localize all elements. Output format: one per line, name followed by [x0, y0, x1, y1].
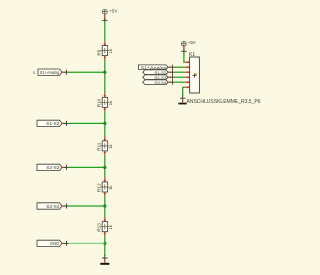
svg-text:R9: R9	[96, 49, 101, 55]
flag S3-S4 right	[143, 80, 175, 85]
wire right flag3 to pin 4	[174, 76, 185, 78]
pin wire left ground	[104, 260, 106, 263]
pin 4	[185, 76, 190, 78]
svg-text:R12: R12	[96, 183, 101, 192]
flag S1+Analog right	[139, 65, 176, 70]
flag S2-S3 right	[143, 75, 175, 80]
svg-text:S1-S2: S1-S2	[46, 121, 60, 126]
pin 6	[185, 86, 190, 88]
resistor R9	[96, 41, 113, 60]
wire K1 pin 6 to ground	[183, 87, 185, 96]
svg-text:ANSCHLUSSKLEMME_R3,5_P6: ANSCHLUSSKLEMME_R3,5_P6	[187, 99, 261, 105]
ground symbol right	[178, 103, 186, 105]
wire +5V to K1 pin 1	[184, 52, 185, 62]
wire R9 to R10	[104, 60, 106, 93]
svg-text:+5V: +5V	[109, 9, 117, 14]
flag S1-S2 right	[143, 70, 175, 75]
wire right flag4 to pin 5	[174, 81, 185, 83]
wire R12 to R13	[104, 196, 106, 217]
wire right flag1 to pin 2	[174, 66, 185, 68]
pin cross left supply	[102, 18, 108, 24]
svg-text:+5V: +5V	[188, 40, 196, 45]
flag S1-S2 left	[37, 120, 69, 126]
wire flag3 to chain	[69, 166, 105, 168]
svg-text:S3-S4: S3-S4	[46, 204, 60, 209]
wire right flag2 to pin 3	[174, 71, 185, 73]
junction node S1+Analog	[103, 71, 106, 74]
wire supply to R9	[104, 21, 106, 41]
resistor R13	[96, 217, 113, 236]
wire flag4 to chain	[69, 205, 105, 207]
resistor R11	[96, 137, 113, 156]
svg-text:R13: R13	[96, 223, 101, 232]
wire R13 to ground	[104, 236, 106, 256]
pin cross right ground	[180, 95, 186, 101]
flag S3-S4 left	[37, 203, 69, 209]
resistor R10	[96, 93, 113, 112]
flag S1+Analog left	[33, 69, 70, 75]
svg-text:R11: R11	[96, 142, 101, 151]
svg-text:S1+Analog: S1+Analog	[40, 70, 60, 75]
svg-text:R10: R10	[96, 98, 101, 107]
junction node S3-S4	[103, 204, 106, 207]
ground symbol left	[100, 263, 109, 265]
wire flag5 to chain	[69, 242, 105, 244]
pin 5	[185, 81, 190, 83]
pin cross right supply	[181, 49, 187, 55]
svg-text:GND: GND	[50, 241, 59, 246]
pin 3	[185, 71, 190, 73]
pin wire right ground	[182, 100, 184, 103]
flag S2-S3 left	[37, 164, 69, 170]
pin wire of supply right	[183, 46, 185, 51]
svg-text:S3-S4: S3-S4	[154, 80, 167, 85]
svg-text:S2-S3: S2-S3	[46, 165, 60, 170]
pin 1	[185, 61, 190, 63]
supply +5V right	[182, 41, 187, 46]
wire R11 to R12	[104, 155, 106, 177]
pin wire of supply left	[104, 14, 106, 20]
junction node S1-S2	[103, 122, 106, 125]
resistor R12	[96, 178, 113, 197]
wire R10 to R11	[104, 112, 106, 137]
pin cross left ground	[102, 255, 108, 261]
wire flag2 to chain	[69, 122, 105, 124]
wire flag1 to chain	[69, 71, 105, 73]
junction node GND tap	[103, 242, 106, 245]
junction node S2-S3	[103, 166, 106, 169]
flag GND left	[37, 240, 69, 246]
pin 2	[185, 66, 190, 68]
connector K1	[185, 52, 200, 93]
supply +5V left	[102, 9, 107, 14]
